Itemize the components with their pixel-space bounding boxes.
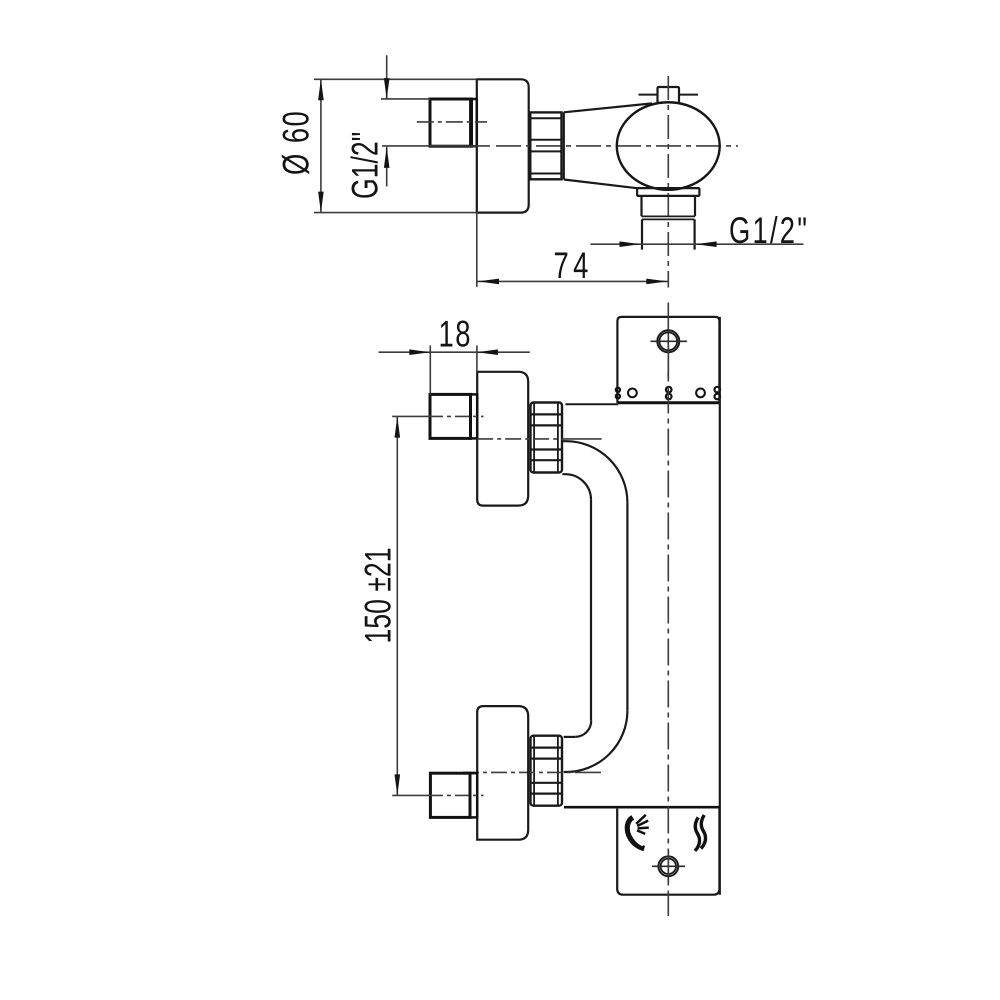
arrowhead 150 bottom — [395, 774, 401, 795]
vertical centerline of column — [667, 303, 669, 917]
valve cone base line — [563, 112, 565, 179]
nut facet lines — [530, 118, 561, 173]
upper union nut (front) — [531, 403, 563, 473]
lower nipple collar — [470, 773, 477, 817]
svg-text:G1/2": G1/2" — [729, 210, 809, 251]
wall flange block (side view) — [477, 79, 529, 212]
top mounting plate — [617, 317, 719, 403]
outlet thread relief lines — [642, 216, 696, 219]
dimension line dia 60 — [320, 79, 322, 212]
arrowhead G1/2 up — [384, 147, 390, 168]
lower inlet nipple square — [430, 773, 470, 817]
lower nut centerline — [463, 771, 583, 773]
upper nipple centerline — [392, 415, 429, 417]
plate hole small circle left — [628, 389, 637, 398]
upper nut facet lines — [531, 414, 563, 460]
upper inlet nipple square — [430, 394, 471, 438]
svg-text:G1/2": G1/2" — [344, 132, 385, 199]
riser tube inner wall — [590, 500, 592, 721]
bottom mounting plate — [617, 809, 719, 895]
lower union block (front) — [477, 706, 528, 840]
nipple centerline (dash-dot) — [417, 121, 487, 123]
arrowhead dia60 top — [318, 79, 324, 100]
knob ellipse (handle side view) — [617, 102, 720, 190]
arrowhead 18 left — [409, 349, 430, 355]
wave icon stroke 2 — [701, 815, 706, 849]
plate hole ring pair center — [666, 387, 672, 393]
dimension line 18 — [379, 351, 530, 353]
valve cone top line — [564, 103, 652, 112]
riser tube outer wall — [626, 503, 628, 711]
top screw inner circle — [659, 332, 677, 350]
svg-text:Ø 60: Ø 60 — [276, 110, 317, 175]
arrowhead G1/2 down — [384, 78, 390, 99]
arrowhead outlet left — [620, 241, 641, 247]
outlet pipe lower section walls — [642, 219, 695, 249]
lower nut chamfer verticals — [534, 736, 558, 806]
body base edge lower — [564, 806, 720, 809]
top screw crosshair — [651, 330, 687, 379]
svg-text:150 ±21: 150 ±21 — [357, 547, 398, 643]
dimension 18 extension left — [429, 345, 431, 394]
riser tube lower elbow outer — [566, 711, 627, 772]
nipple collar strip — [470, 99, 477, 146]
extension line nipple top — [381, 98, 430, 100]
vertical centerline through knob and outlet — [667, 76, 669, 288]
bottom screw inner circle — [661, 859, 676, 874]
upper nipple collar — [471, 394, 478, 438]
dimension line G1/2 outlet — [591, 243, 804, 245]
riser tube upper elbow outer — [562, 441, 627, 502]
lower union nut (front) — [531, 736, 563, 806]
upper nut chamfer verticals — [534, 403, 558, 473]
valve cone bottom line — [564, 180, 637, 189]
plate hole ring pair right edge — [715, 387, 721, 393]
arrowhead dia60 bottom — [318, 192, 324, 213]
svg-text:18: 18 — [439, 314, 472, 355]
upper nut centerline — [477, 438, 567, 440]
dimension line G1/2 top seg (vertical) — [386, 55, 388, 186]
riser tube upper elbow inner — [562, 474, 591, 500]
plate hole small circle right — [696, 389, 705, 398]
arrowhead 18 right — [477, 349, 498, 355]
riser tube lower elbow inner — [575, 721, 591, 737]
dimension line 74 — [477, 280, 668, 282]
svg-text:74: 74 — [554, 245, 593, 286]
union nut (side view) — [530, 112, 561, 179]
arrowhead 74 left — [478, 279, 499, 285]
spray icon crescent — [628, 818, 645, 849]
lower nipple centerline — [392, 794, 429, 796]
top screw outer circle — [657, 330, 679, 352]
arrowhead outlet right — [696, 241, 717, 247]
arrowhead 150 top — [395, 417, 401, 438]
outlet flange under knob — [637, 188, 699, 196]
extension line for 74 (block left) — [476, 213, 478, 287]
column body right edge — [719, 317, 721, 895]
lower nut facet lines — [531, 748, 563, 794]
plate hole ring pair left edge (clipped) — [616, 388, 620, 392]
dimension line 150 pm 21 — [396, 416, 398, 795]
arrowhead 74 right — [646, 279, 667, 285]
wave icon stroke 1 — [695, 817, 700, 851]
extension line flange top (for dia 60) — [314, 78, 477, 80]
body base edge upper — [565, 403, 618, 405]
spray icon rays — [636, 815, 649, 834]
button tick left — [639, 94, 658, 96]
bottom screw crosshair — [652, 850, 685, 883]
top plate bottom thick edge — [617, 401, 719, 404]
top button — [658, 87, 680, 103]
outlet pipe upper section walls — [642, 196, 696, 216]
main horizontal centerline of side view — [382, 145, 490, 147]
extension line flange bottom (for dia 60) — [314, 212, 478, 214]
inlet nipple square (side view) — [430, 99, 472, 146]
upper union block (front) — [477, 372, 528, 506]
button tick right — [679, 94, 698, 96]
dimension 18 extension right — [476, 345, 478, 372]
bottom screw outer circle — [658, 856, 678, 876]
